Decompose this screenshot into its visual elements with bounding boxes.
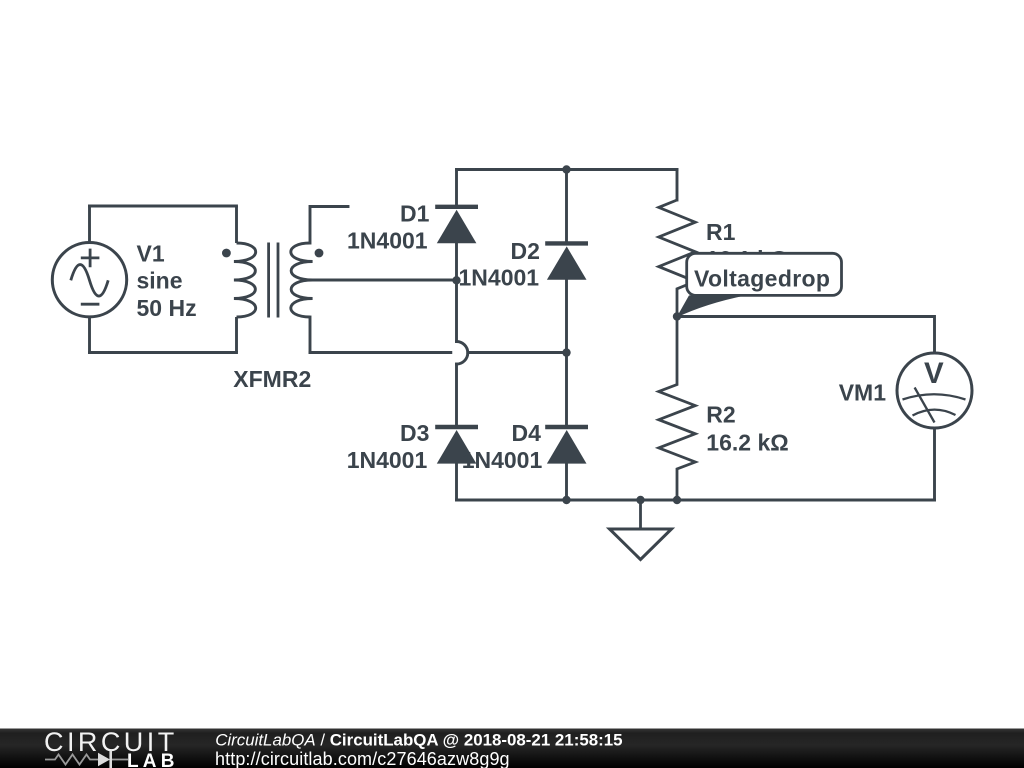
wire bridge right segment a xyxy=(565,170,568,244)
wire node to voltmeter xyxy=(677,317,935,354)
diode D1 xyxy=(435,207,478,243)
resistor R1 xyxy=(659,200,696,317)
svg-text:V1: V1 xyxy=(137,240,165,266)
wire V1 bottom lead xyxy=(88,317,91,353)
voltage source V1 xyxy=(52,243,126,317)
D3 labels xyxy=(347,420,430,473)
R2 labels xyxy=(706,402,788,456)
svg-text:V: V xyxy=(924,357,944,390)
wire voltmeter bottom lead xyxy=(933,428,936,500)
D2 labels xyxy=(459,238,540,290)
primary winding xyxy=(235,206,238,243)
svg-text:sine: sine xyxy=(137,267,183,293)
wire bridge left segment d xyxy=(455,464,458,500)
svg-text:50 Hz: 50 Hz xyxy=(137,295,197,321)
svg-text:1N4001: 1N4001 xyxy=(462,447,543,473)
wire secondary bottom lead xyxy=(309,317,312,353)
svg-text:http://circuitlab.com/c27646az: http://circuitlab.com/c27646azw8g9g xyxy=(215,749,510,768)
wire secondary bottom left of hop xyxy=(310,351,451,354)
secondary winding xyxy=(291,243,313,317)
wire bridge top rail xyxy=(457,168,678,171)
wire bottom rail xyxy=(457,499,935,502)
transformer XFMR2 xyxy=(234,206,313,353)
node top rail junction xyxy=(562,165,570,173)
polarity dot secondary xyxy=(315,249,324,258)
wire V1 top lead xyxy=(88,206,91,243)
svg-text:D4: D4 xyxy=(512,420,542,446)
node secondary bottom junction xyxy=(562,348,570,356)
logo diode bar xyxy=(109,751,112,768)
node bottom rail junction 2 xyxy=(636,496,644,504)
core xyxy=(269,243,278,318)
D4 labels xyxy=(462,420,543,473)
resistor R2 xyxy=(659,317,696,501)
svg-text:16.2 kΩ: 16.2 kΩ xyxy=(706,430,788,456)
annotation Voltagedrop callout tail xyxy=(677,295,747,317)
wire bridge left segment a xyxy=(455,170,458,207)
diode D2 xyxy=(545,243,588,279)
wire bridge right segment b xyxy=(565,280,568,427)
svg-text:CircuitLabQA / CircuitLabQA @: CircuitLabQA / CircuitLabQA @ 2018-08-21… xyxy=(215,730,622,749)
svg-text:D2: D2 xyxy=(511,238,540,264)
svg-text:1N4001: 1N4001 xyxy=(347,228,428,254)
wire bridge left segment c xyxy=(455,364,458,427)
svg-text:D1: D1 xyxy=(400,201,430,227)
svg-text:1N4001: 1N4001 xyxy=(347,447,428,473)
svg-text:D3: D3 xyxy=(400,420,429,446)
D1 labels xyxy=(347,201,430,254)
wire V1 top horizontal xyxy=(90,205,237,208)
wire V1 bottom horizontal xyxy=(90,351,237,354)
wire bridge left segment b xyxy=(455,243,458,341)
logo resistor glyph xyxy=(45,755,98,765)
svg-text:VM1: VM1 xyxy=(839,379,887,405)
diode D4 xyxy=(545,427,588,464)
footer bar xyxy=(0,729,1024,768)
V1 labels xyxy=(137,240,197,321)
node bottom rail junction 3 xyxy=(673,496,681,504)
voltmeter VM1 xyxy=(897,353,972,428)
svg-text:Voltagedrop: Voltagedrop xyxy=(694,265,830,291)
svg-text:1N4001: 1N4001 xyxy=(459,264,540,290)
diode D3 xyxy=(435,427,478,464)
wire R1 top lead xyxy=(676,170,679,201)
polarity dot primary xyxy=(222,249,231,258)
wire secondary bottom right of hop xyxy=(468,351,567,354)
svg-text:LAB: LAB xyxy=(127,751,179,768)
node divider junction xyxy=(673,312,681,320)
node center tap junction xyxy=(452,276,460,284)
wire bridge right segment c xyxy=(565,464,568,500)
node bottom rail junction 1 xyxy=(562,496,570,504)
svg-text:R2: R2 xyxy=(706,402,735,428)
svg-text:XFMR2: XFMR2 xyxy=(233,366,311,392)
wire hop over bridge left xyxy=(457,342,468,365)
wire center tap to bridge xyxy=(310,279,457,282)
ground xyxy=(610,500,672,560)
annotation Voltagedrop callout box xyxy=(687,253,842,295)
logo diode glyph xyxy=(98,753,110,766)
wire secondary top stub xyxy=(310,207,348,244)
R1 labels xyxy=(706,219,788,272)
svg-text:R1: R1 xyxy=(706,219,736,245)
logo wire to LAB xyxy=(112,759,128,761)
